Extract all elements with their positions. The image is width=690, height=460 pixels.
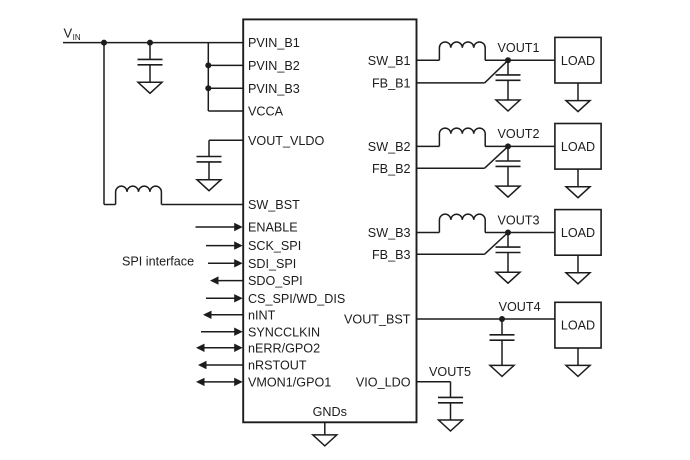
svg-text:FB_B1: FB_B1 [372,77,411,91]
wire SDI_SPI with input arrow [208,259,243,267]
wire SCK_SPI with input arrow [206,241,243,249]
wire SDO_SPI with output arrow [210,276,243,284]
svg-text:SW_B2: SW_B2 [368,140,411,154]
svg-text:SYNCCLKIN: SYNCCLKIN [248,325,320,339]
wire FB_B1 diagonal to VOUT1 [485,60,508,83]
ground under LOAD2 [566,187,590,198]
svg-text:CS_SPI/WD_DIS: CS_SPI/WD_DIS [248,292,345,306]
svg-text:SPI interface: SPI interface [122,254,194,268]
svg-text:LOAD: LOAD [561,54,595,68]
svg-text:LOAD: LOAD [561,226,595,240]
svg-text:PVIN_B1: PVIN_B1 [248,36,300,50]
junction PVIN_B3 [205,85,211,91]
svg-text:PVIN_B3: PVIN_B3 [248,82,300,96]
node VIN label [64,26,81,42]
capacitor C_OUT4 [490,335,515,340]
svg-text:PVIN_B2: PVIN_B2 [248,59,300,73]
wire VOUT_VLDO [209,139,243,141]
wire loop corner to inductor [104,204,116,206]
wire VIO_LDO [417,381,451,383]
wire input cap to ground [149,65,151,83]
wire SW_B1 to inductor [417,59,440,61]
wire nINT with output arrow [203,311,243,319]
ground under C_OUT4 [490,365,514,376]
node VOUT4 junction [499,316,505,322]
wire inductor to SW_BST pin [161,204,243,206]
wire LOAD4 to ground [577,348,579,365]
svg-text:SW_B1: SW_B1 [368,54,411,68]
svg-text:SDI_SPI: SDI_SPI [248,257,296,271]
wire inductor L2 to VOUT2 node [485,145,555,147]
wire C_OUT2 to ground [507,166,509,186]
ground under C_OUT5 [439,420,463,431]
capacitor C_IN [138,59,163,64]
capacitor C_OUT3 [496,247,521,252]
inductor L2 [439,128,485,146]
wire VIN vertical drop to SW_BST loop [103,43,105,205]
inductor L3 [439,214,485,232]
ground under LOAD3 [566,273,590,284]
inductor L_BST [116,186,162,204]
svg-text:VOUT5: VOUT5 [429,365,471,379]
wire SYNCCLKIN with input arrow [201,328,243,336]
wire VOUT2 cap stub [507,146,509,161]
node VOUT3 junction [505,230,511,236]
wire VMON1/GPO1 bidirectional arrows [196,378,243,386]
wire LOAD3 to ground [577,255,579,273]
svg-text:LOAD: LOAD [561,140,595,154]
wire C_OUT5 to ground [450,403,452,420]
wire C_OUT4 to ground [501,340,503,365]
wire C_OUT1 to ground [507,80,509,100]
wire nERR/GPO2 bidirectional arrows [196,344,243,352]
wire SW_B2 to inductor [417,145,440,147]
ground under LOAD4 [566,365,590,376]
load block LOAD4 [555,302,601,348]
ground under C_IN [138,82,162,93]
load block LOAD2 [555,124,601,170]
wire VOUT5 cap stub [450,382,452,398]
wire FB_B2 [417,167,485,169]
wire nRSTOUT with output arrow [198,361,243,369]
node VOUT2 junction [505,143,511,149]
wire FB_B3 [417,253,485,255]
svg-text:LOAD: LOAD [561,319,595,333]
ground under C_OUT2 [496,186,520,197]
junction on VIN at x104 [101,40,107,46]
ground under GNDs pin [313,435,337,446]
wire SW_B3 to inductor [417,232,440,234]
wire VOUT_BST to LOAD [417,318,555,320]
svg-text:SW_B3: SW_B3 [368,226,411,240]
wire VOUT3 cap stub [507,233,509,248]
svg-text:SW_BST: SW_BST [248,198,300,212]
svg-text:nINT: nINT [248,308,276,322]
junction PVIN_B2 [205,62,211,68]
svg-text:nRSTOUT: nRSTOUT [248,359,307,373]
wire input cap stub [149,43,151,60]
svg-text:VOUT4: VOUT4 [499,300,541,314]
svg-text:GNDs: GNDs [313,405,347,419]
wire inductor L1 to VOUT1 node [485,59,555,61]
wire FB_B1 [417,82,485,84]
ground under C_OUT3 [496,272,520,283]
wire to PVIN_B2 [208,64,243,66]
wire inductor L3 to VOUT3 node [485,232,555,234]
IC U1 PMIC block [243,19,416,422]
capacitor C_OUT1 [496,75,521,80]
svg-text:VCCA: VCCA [248,105,284,119]
wire LOAD1 to ground [577,83,579,101]
ground under C_VLDO [197,180,221,191]
ground under LOAD1 [566,101,590,112]
svg-text:VIO_LDO: VIO_LDO [356,375,411,389]
wire C_VLDO to ground [208,162,210,180]
svg-text:V: V [64,26,73,41]
wire PVIN branch vertical [207,43,209,111]
wire CS_SPI/WD_DIS with input arrow [206,294,243,302]
wire VOUT4 cap stub [501,319,503,335]
capacitor C_OUT5 [438,397,463,402]
wire VIN to PVIN_B1 [63,42,243,44]
svg-text:FB_B3: FB_B3 [372,248,411,262]
wire FB_B2 diagonal to VOUT2 [485,146,508,168]
ground under C_OUT1 [496,100,520,111]
load block LOAD3 [555,210,601,256]
svg-text:SDO_SPI: SDO_SPI [248,274,303,288]
svg-text:VOUT_BST: VOUT_BST [344,313,411,327]
node VOUT1 junction [505,57,511,63]
capacitor C_OUT2 [496,161,521,166]
wire GNDs to ground [324,422,326,435]
capacitor C_VLDO [197,157,222,162]
wire VOUT_VLDO cap stub [208,140,210,156]
wire ENABLE with input arrow [196,223,243,231]
wire to PVIN_B3 [208,87,243,89]
svg-text:VOUT2: VOUT2 [498,127,540,141]
wire VOUT1 cap stub [507,60,509,75]
svg-text:VOUT_VLDO: VOUT_VLDO [248,134,324,148]
wire FB_B3 diagonal to VOUT3 [485,233,508,255]
wire to VCCA [208,110,243,112]
load block LOAD1 [555,37,601,83]
svg-text:VMON1/GPO1: VMON1/GPO1 [248,376,331,390]
svg-text:SCK_SPI: SCK_SPI [248,239,301,253]
svg-text:ENABLE: ENABLE [248,221,298,235]
svg-text:nERR/GPO2: nERR/GPO2 [248,341,320,355]
junction on VIN at x150 [147,40,153,46]
wire LOAD2 to ground [577,169,579,187]
svg-text:FB_B2: FB_B2 [372,162,411,176]
svg-text:IN: IN [73,33,81,42]
svg-text:VOUT3: VOUT3 [498,213,540,227]
wire C_OUT3 to ground [507,253,509,273]
svg-text:VOUT1: VOUT1 [498,41,540,55]
inductor L1 [439,42,485,60]
